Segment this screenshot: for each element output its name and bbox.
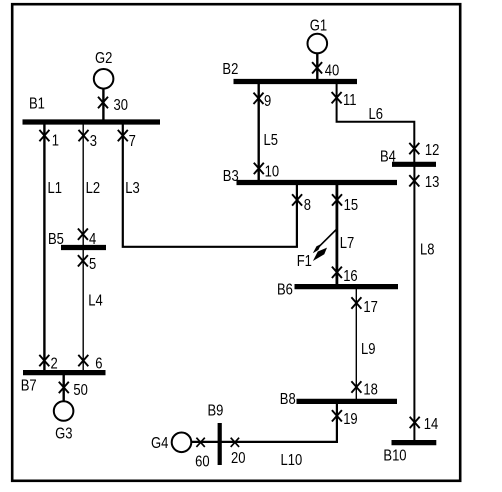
svg-text:L2: L2 — [86, 180, 101, 197]
svg-text:60: 60 — [195, 454, 210, 471]
svg-text:50: 50 — [73, 382, 88, 399]
svg-text:8: 8 — [304, 197, 311, 214]
svg-text:B9: B9 — [208, 403, 224, 420]
svg-text:G4: G4 — [151, 435, 168, 452]
svg-text:B6: B6 — [277, 282, 293, 299]
svg-text:2: 2 — [51, 356, 58, 373]
svg-text:17: 17 — [363, 299, 378, 316]
svg-text:40: 40 — [325, 63, 340, 80]
svg-text:10: 10 — [265, 164, 280, 181]
svg-text:L9: L9 — [361, 341, 376, 358]
svg-text:L3: L3 — [125, 180, 140, 197]
svg-text:B8: B8 — [280, 391, 296, 408]
svg-text:B10: B10 — [383, 448, 406, 465]
svg-text:18: 18 — [363, 382, 378, 399]
svg-text:L10: L10 — [281, 452, 303, 469]
svg-text:11: 11 — [343, 92, 357, 109]
svg-text:7: 7 — [129, 133, 136, 150]
svg-text:B7: B7 — [21, 378, 37, 395]
svg-text:B1: B1 — [29, 96, 45, 113]
svg-text:G2: G2 — [95, 50, 112, 67]
svg-text:5: 5 — [89, 256, 96, 273]
svg-text:20: 20 — [231, 450, 246, 467]
svg-text:B3: B3 — [223, 168, 239, 185]
svg-text:13: 13 — [425, 174, 440, 191]
svg-text:16: 16 — [343, 268, 358, 285]
svg-text:L7: L7 — [340, 235, 355, 252]
svg-text:G1: G1 — [310, 18, 327, 35]
svg-text:F1: F1 — [297, 253, 312, 270]
svg-text:1: 1 — [52, 133, 59, 150]
svg-text:L8: L8 — [420, 242, 435, 259]
svg-text:G3: G3 — [55, 426, 72, 443]
svg-text:30: 30 — [114, 97, 129, 114]
svg-text:4: 4 — [89, 231, 96, 248]
svg-text:15: 15 — [344, 197, 359, 214]
svg-text:L1: L1 — [48, 180, 63, 197]
svg-text:B5: B5 — [48, 231, 64, 248]
svg-text:12: 12 — [425, 142, 440, 159]
svg-text:L5: L5 — [264, 132, 279, 149]
svg-text:L4: L4 — [88, 293, 103, 310]
svg-text:B2: B2 — [222, 61, 238, 78]
svg-text:6: 6 — [95, 356, 102, 373]
svg-text:B4: B4 — [380, 149, 396, 166]
svg-text:9: 9 — [264, 93, 271, 110]
svg-text:14: 14 — [424, 416, 439, 433]
svg-text:19: 19 — [343, 411, 358, 428]
svg-text:3: 3 — [90, 133, 97, 150]
svg-text:L6: L6 — [369, 106, 384, 123]
